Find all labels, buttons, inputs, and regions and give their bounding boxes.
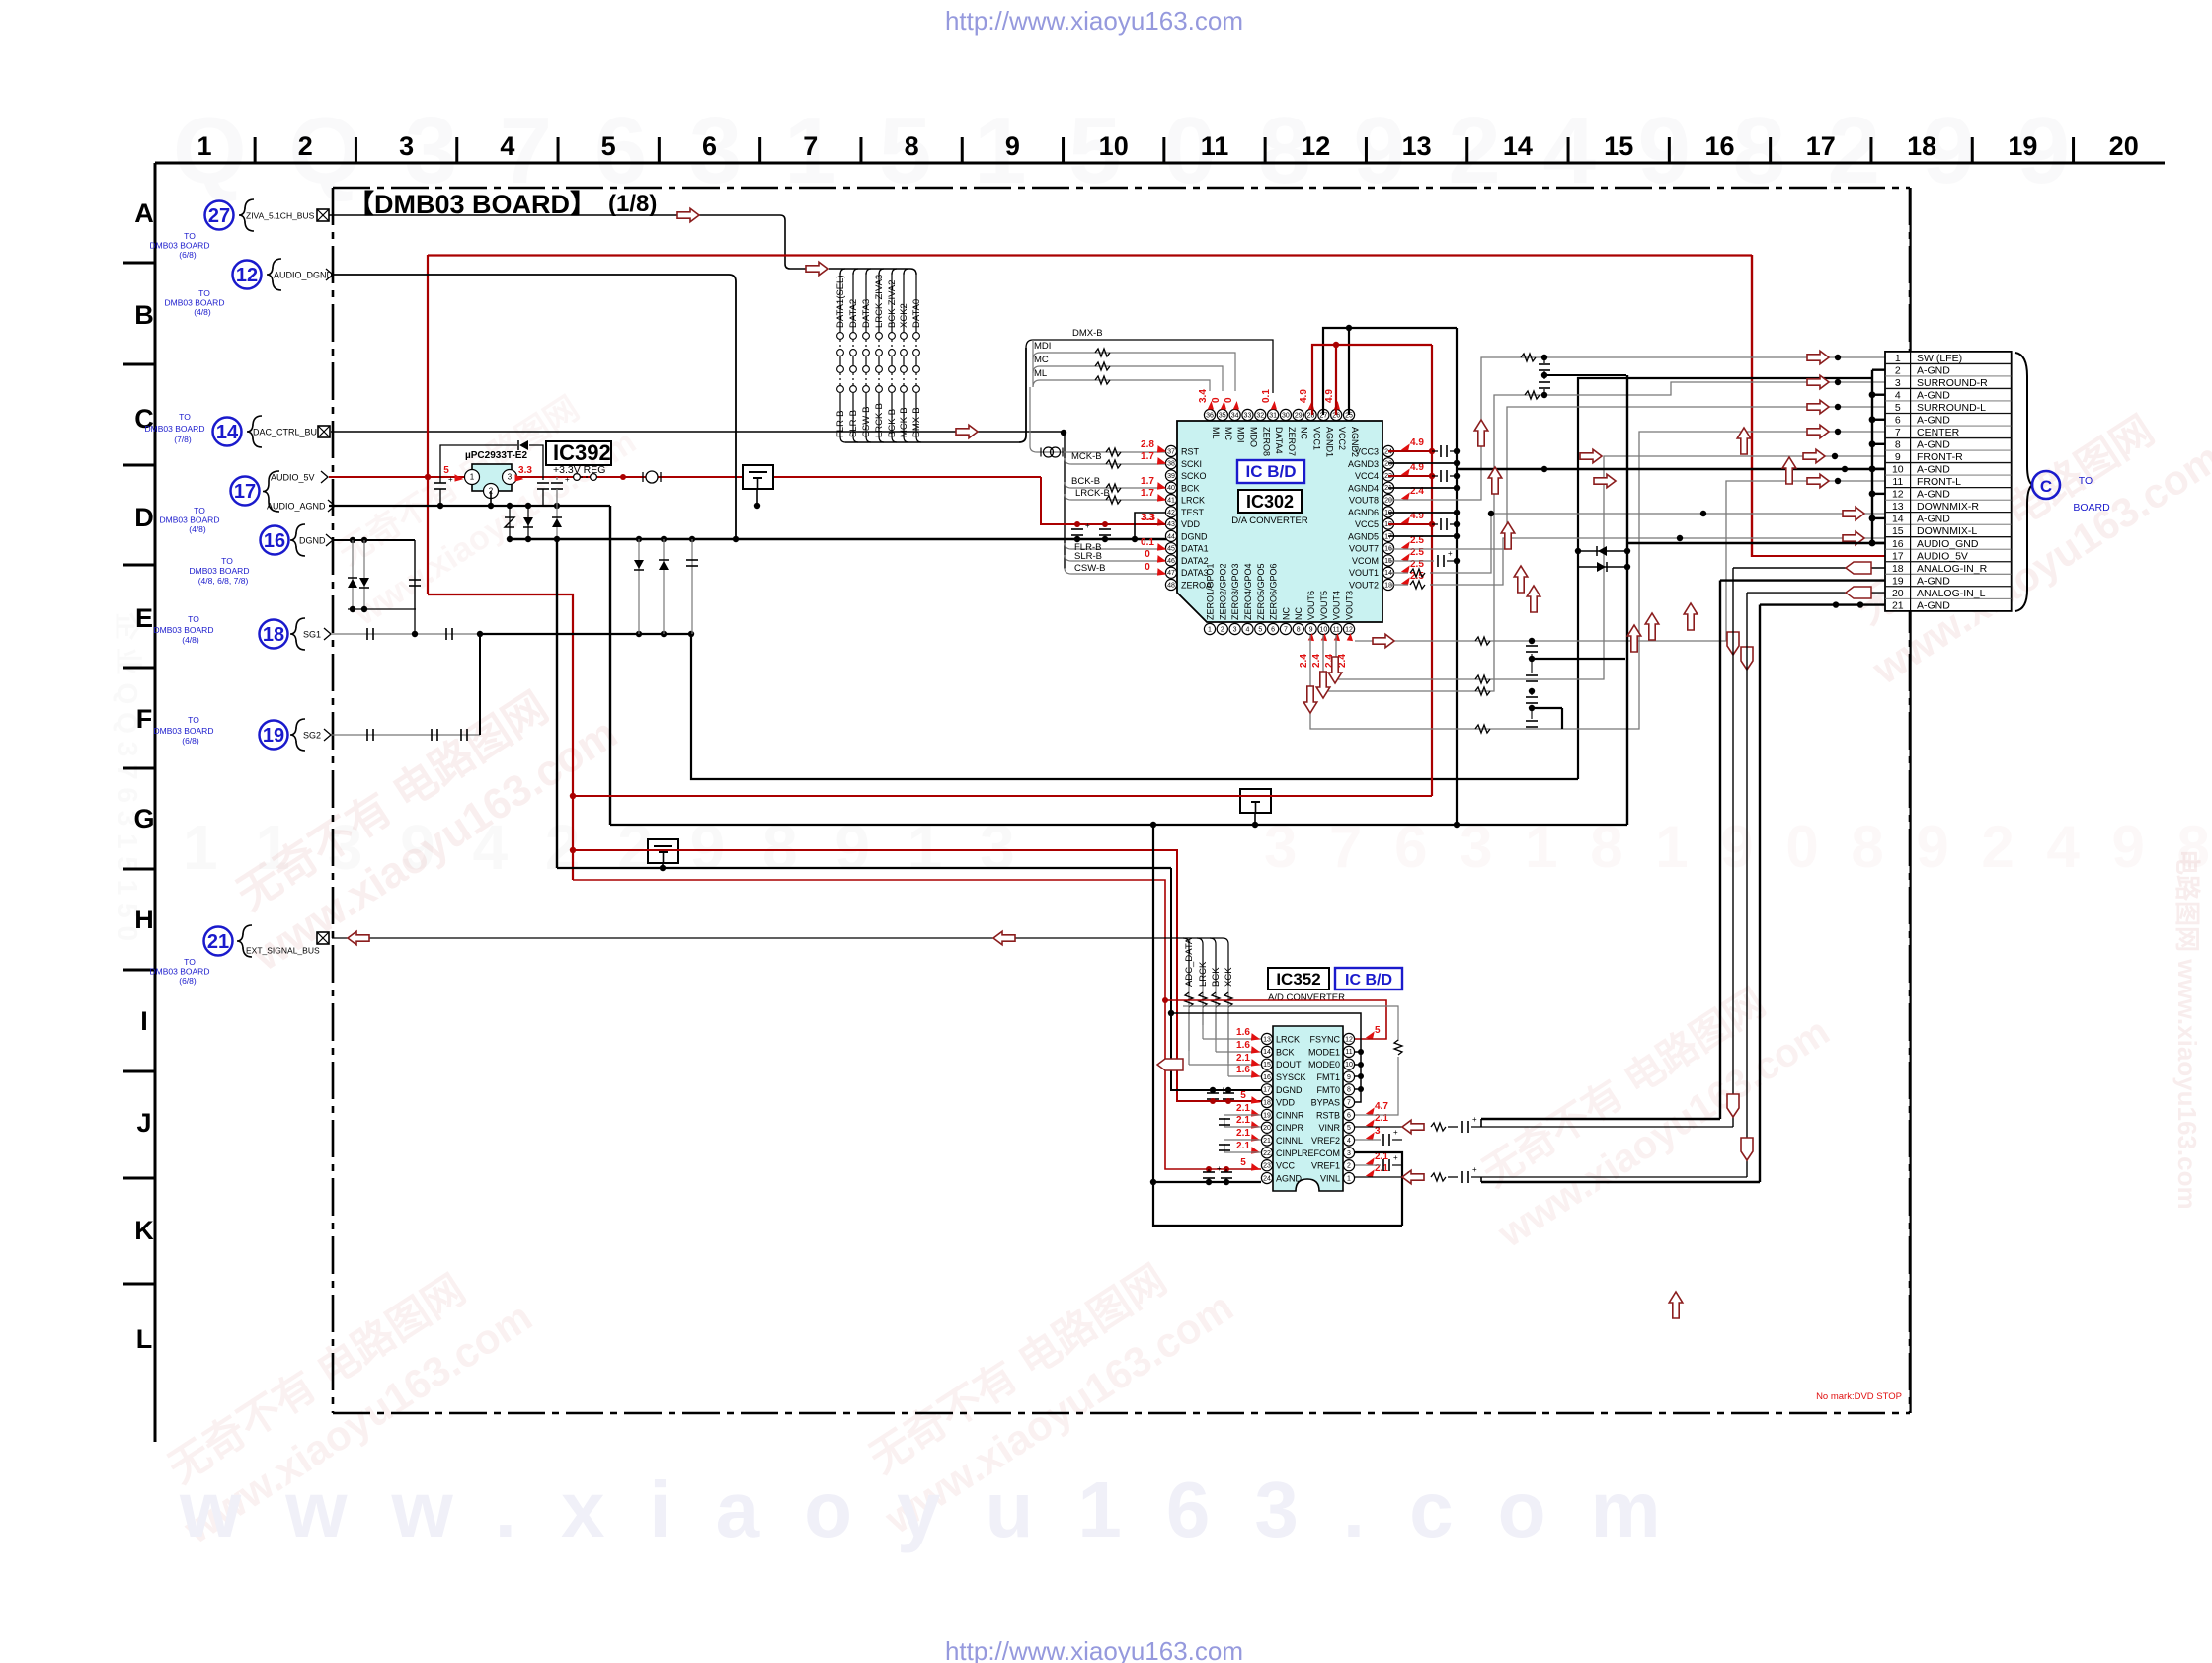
svg-text:D: D bbox=[134, 503, 154, 532]
svg-text:20: 20 bbox=[1263, 1125, 1271, 1132]
svg-text:28: 28 bbox=[1307, 412, 1315, 419]
IC302 D/A converter body bbox=[1177, 421, 1382, 622]
red loop top (VCC1/VCC2) bbox=[1312, 345, 1432, 415]
svg-text:(6/8): (6/8) bbox=[182, 736, 199, 746]
IC302 labels bbox=[1237, 460, 1304, 483]
VCC4 tap bbox=[1388, 475, 1432, 477]
svg-text:MDI: MDI bbox=[1236, 427, 1246, 443]
svg-text:NC: NC bbox=[1281, 607, 1291, 620]
wire VOUT8 to SW(LFE) row1 bbox=[1388, 357, 1885, 500]
svg-text:23: 23 bbox=[1263, 1163, 1271, 1170]
svg-text:12: 12 bbox=[1345, 626, 1353, 633]
svg-text:DMB03 BOARD: DMB03 BOARD bbox=[165, 298, 225, 308]
svg-text:15: 15 bbox=[1263, 1062, 1271, 1069]
bus riser DATA3 / CSW-B bbox=[866, 269, 871, 275]
svg-text:17: 17 bbox=[234, 481, 256, 503]
svg-text:19: 19 bbox=[263, 725, 284, 747]
svg-text:A-GND: A-GND bbox=[1917, 415, 1950, 427]
SG2 riser to SG1 bbox=[479, 634, 481, 735]
svg-text:A: A bbox=[134, 198, 154, 228]
connector stub 17 AUDIO_5V / AUDIO_AGND bbox=[231, 477, 260, 506]
svg-text:4.9: 4.9 bbox=[1299, 389, 1309, 403]
svg-text:FRONT-R: FRONT-R bbox=[1917, 451, 1963, 463]
svg-text:MC: MC bbox=[1034, 355, 1049, 365]
svg-text:2.1: 2.1 bbox=[1236, 1128, 1250, 1139]
svg-text:BCK: BCK bbox=[1181, 483, 1200, 493]
left ruler line bbox=[154, 163, 157, 1442]
riser bus x=1078 (FLR/SLR/CSW/BCK/LRCK) bbox=[1064, 433, 1066, 569]
svg-text:DMB03 BOARD: DMB03 BOARD bbox=[154, 625, 214, 635]
svg-text:BCK-B: BCK-B bbox=[1071, 476, 1100, 487]
svg-text:21: 21 bbox=[1892, 599, 1904, 611]
watermark red diagonal groups bbox=[211, 660, 626, 981]
svg-text:4.9: 4.9 bbox=[1410, 437, 1424, 448]
svg-text:3: 3 bbox=[1347, 1150, 1351, 1157]
svg-text:DMX-B: DMX-B bbox=[1072, 328, 1103, 339]
svg-text:5: 5 bbox=[1240, 1157, 1246, 1168]
svg-text:21: 21 bbox=[207, 931, 229, 953]
DGND rail y=546 bbox=[510, 538, 1171, 540]
svg-text:12: 12 bbox=[236, 265, 258, 286]
svg-text:DMB03 BOARD: DMB03 BOARD bbox=[150, 967, 210, 977]
connector table C bbox=[1885, 352, 2012, 611]
svg-text:BYPAS: BYPAS bbox=[1311, 1098, 1340, 1108]
DGND stub line to sub-circuit bbox=[332, 539, 415, 541]
svg-text:VOUT2: VOUT2 bbox=[1349, 580, 1379, 590]
svg-text:1.6: 1.6 bbox=[1236, 1040, 1250, 1051]
svg-text:E: E bbox=[135, 603, 153, 633]
wire A-GND row19 bbox=[1720, 579, 1885, 581]
connector stub 16 DGND bbox=[261, 526, 289, 555]
svg-text:SLR-B: SLR-B bbox=[1074, 551, 1102, 562]
svg-text:9: 9 bbox=[1347, 1074, 1351, 1081]
svg-text:AGND6: AGND6 bbox=[1348, 508, 1379, 517]
svg-text:IC392: IC392 bbox=[553, 440, 611, 465]
svg-text:11: 11 bbox=[1345, 1049, 1352, 1056]
svg-text:2: 2 bbox=[1221, 626, 1224, 633]
svg-text:www.xiaoyu163.com: www.xiaoyu163.com bbox=[179, 1465, 1705, 1553]
red rail x=1450 (VCC) bbox=[1431, 345, 1433, 796]
svg-text:+: + bbox=[1393, 1128, 1398, 1137]
svg-text:10: 10 bbox=[1099, 131, 1129, 161]
post-reg caps bbox=[542, 477, 544, 480]
svg-text:NC: NC bbox=[1300, 427, 1309, 439]
svg-text:AUDIO_5V: AUDIO_5V bbox=[271, 473, 315, 483]
svg-text:DATA1(SEL): DATA1(SEL) bbox=[835, 276, 846, 329]
svg-text:VINR: VINR bbox=[1318, 1123, 1340, 1133]
svg-text:MDI: MDI bbox=[1034, 341, 1051, 352]
CINNR/CINPR caps bbox=[1224, 1114, 1261, 1116]
svg-text:TO: TO bbox=[184, 957, 196, 967]
svg-text:19: 19 bbox=[1263, 1112, 1271, 1119]
svg-text:3.3: 3.3 bbox=[1142, 513, 1155, 523]
beads on VOUT lines bbox=[1475, 637, 1490, 645]
svg-text:5: 5 bbox=[1347, 1125, 1351, 1132]
svg-text:2: 2 bbox=[1895, 364, 1901, 376]
wire ANALOG-IN_R row18 bbox=[1733, 567, 1885, 569]
svg-text:12: 12 bbox=[1345, 1036, 1353, 1043]
svg-text:DOWNMIX-R: DOWNMIX-R bbox=[1917, 501, 1979, 513]
wire AUDIO_5V (red) bbox=[329, 476, 1041, 478]
red top run y=258 bbox=[428, 254, 1752, 256]
row1 filter caps bbox=[1543, 357, 1545, 363]
svg-text:AUDIO_5V: AUDIO_5V bbox=[1917, 550, 1968, 562]
svg-text:SURROUND-R: SURROUND-R bbox=[1917, 377, 1988, 389]
rail y=879 DGND to IC352 bbox=[557, 867, 1171, 869]
svg-text:5: 5 bbox=[1375, 1025, 1381, 1036]
svg-text:NC: NC bbox=[1294, 607, 1303, 620]
svg-text:IC B/D: IC B/D bbox=[1246, 462, 1297, 481]
wire VOUT6 to CENTER row7 bbox=[1310, 432, 1885, 729]
svg-text:SLR-B: SLR-B bbox=[848, 410, 859, 437]
svg-text:43: 43 bbox=[1167, 521, 1175, 528]
up arrows mid network bbox=[1474, 420, 1488, 446]
svg-text:DMB03 BOARD: DMB03 BOARD bbox=[160, 515, 220, 525]
svg-text:LRCK: LRCK bbox=[1198, 961, 1209, 987]
svg-text:39: 39 bbox=[1167, 473, 1175, 480]
svg-text:MCK-B: MCK-B bbox=[1071, 451, 1102, 462]
svg-text:AUDIO_GND: AUDIO_GND bbox=[1917, 538, 1979, 550]
svg-text:电路图网 www.xiaoyu163.com: 电路图网 www.xiaoyu163.com bbox=[2172, 849, 2202, 1210]
svg-text:2.4: 2.4 bbox=[1311, 654, 1322, 668]
VCC5 tap bbox=[1388, 523, 1432, 525]
left ruler ticks bbox=[123, 262, 155, 265]
svg-text:4: 4 bbox=[1895, 390, 1901, 402]
svg-text:21: 21 bbox=[1263, 1138, 1271, 1145]
red 3.3V drop to pin43 bbox=[1041, 477, 1165, 524]
connector stub 14 DAC_CTRL_BUS bbox=[213, 418, 242, 446]
svg-text:+: + bbox=[1448, 549, 1453, 558]
svg-text:1.7: 1.7 bbox=[1141, 451, 1154, 462]
wire VOUT1 to DOWNMIX-R row13 bbox=[1388, 572, 1408, 574]
svg-text:7: 7 bbox=[803, 131, 818, 161]
svg-text:VCC2: VCC2 bbox=[1337, 427, 1347, 450]
top ruler line bbox=[155, 162, 2165, 165]
svg-text:I: I bbox=[140, 1006, 148, 1036]
svg-text:A-GND: A-GND bbox=[1917, 439, 1950, 451]
AGND3 tap bbox=[1388, 462, 1457, 464]
wire MCK-B jumper line to pin37 bbox=[1030, 446, 1165, 452]
svg-text:DMB03 BOARD: DMB03 BOARD bbox=[150, 241, 210, 251]
svg-text:1: 1 bbox=[470, 472, 475, 481]
svg-text:(7/8): (7/8) bbox=[174, 435, 192, 444]
data bus bottom rail to DAC_CTRL junction bbox=[845, 441, 1019, 443]
svg-text:17: 17 bbox=[1892, 550, 1904, 562]
svg-text:0: 0 bbox=[1145, 562, 1150, 573]
svg-text:13: 13 bbox=[1892, 501, 1904, 513]
svg-text:0: 0 bbox=[1211, 397, 1222, 403]
risers to analog input network bbox=[1719, 581, 1721, 1119]
svg-text:VDD: VDD bbox=[1276, 1098, 1296, 1108]
svg-text:No mark:DVD STOP: No mark:DVD STOP bbox=[1816, 1391, 1902, 1402]
svg-text:17: 17 bbox=[1263, 1087, 1271, 1094]
svg-text:DOWNMIX-L: DOWNMIX-L bbox=[1917, 525, 1977, 537]
svg-text:VOUT6: VOUT6 bbox=[1306, 591, 1316, 620]
IC352 pins left (13-24) bbox=[1261, 1033, 1272, 1044]
svg-text:CSW-B: CSW-B bbox=[861, 407, 872, 438]
svg-text:8: 8 bbox=[1347, 1087, 1351, 1094]
svg-text:18: 18 bbox=[1907, 131, 1936, 161]
svg-text:VCC: VCC bbox=[1276, 1161, 1296, 1171]
svg-text:ML: ML bbox=[1211, 427, 1221, 439]
svg-text:10: 10 bbox=[1319, 626, 1327, 633]
bus riser LRCK bbox=[1197, 938, 1203, 986]
regulator IC392 uPC2933T-E2 bbox=[472, 464, 512, 491]
AGND4 tap bbox=[1388, 487, 1457, 489]
wire ANALOG-IN_L row20 bbox=[1747, 592, 1885, 594]
svg-text:33: 33 bbox=[1244, 412, 1252, 419]
svg-text:DMB03 BOARD: DMB03 BOARD bbox=[190, 566, 250, 576]
table right brace bbox=[2015, 353, 2032, 611]
svg-text:VCOM: VCOM bbox=[1352, 556, 1379, 566]
svg-text:24: 24 bbox=[1263, 1175, 1271, 1182]
svg-text:+: + bbox=[565, 475, 570, 484]
svg-text:7: 7 bbox=[1284, 626, 1288, 633]
svg-text:7: 7 bbox=[1347, 1100, 1351, 1107]
svg-text:AGND4: AGND4 bbox=[1348, 483, 1379, 493]
svg-text:(4/8): (4/8) bbox=[194, 307, 211, 317]
svg-text:J: J bbox=[136, 1108, 151, 1138]
svg-text:CINPL: CINPL bbox=[1276, 1148, 1303, 1158]
svg-text:ML: ML bbox=[1034, 368, 1047, 379]
svg-text:VCC1: VCC1 bbox=[1312, 427, 1322, 450]
svg-text:SG2: SG2 bbox=[303, 731, 321, 741]
svg-text:VREF1: VREF1 bbox=[1311, 1161, 1340, 1171]
svg-text:TO: TO bbox=[194, 506, 205, 515]
svg-text:45: 45 bbox=[1167, 546, 1175, 553]
svg-text:L: L bbox=[136, 1324, 153, 1354]
IC352 labels bbox=[1268, 968, 1329, 990]
ground symbol G2 bbox=[1240, 789, 1271, 813]
svg-text:1.7: 1.7 bbox=[1141, 488, 1154, 499]
svg-text:DAC_CTRL_BUS: DAC_CTRL_BUS bbox=[253, 428, 323, 437]
svg-text:B: B bbox=[134, 300, 154, 330]
svg-text:9: 9 bbox=[1005, 131, 1020, 161]
IC352 A/D converter body bbox=[1273, 1026, 1343, 1191]
svg-text:A-GND: A-GND bbox=[1917, 489, 1950, 501]
black riser x=1186 to IC352 DGND bbox=[1171, 868, 1261, 1090]
svg-text:0: 0 bbox=[1145, 549, 1150, 560]
svg-text:A-GND: A-GND bbox=[1917, 390, 1950, 402]
AGND pin24 line bbox=[1153, 1181, 1261, 1183]
svg-text:0.1: 0.1 bbox=[1261, 389, 1272, 403]
svg-text:TO: TO bbox=[188, 715, 199, 725]
svg-text:14: 14 bbox=[1892, 514, 1904, 525]
bead on 3.3V line bbox=[646, 471, 658, 483]
AUDIO_AGND rail y=512 bbox=[329, 505, 610, 507]
svg-text:6: 6 bbox=[1895, 415, 1901, 427]
bus riser DATA0 / DMX-B bbox=[915, 273, 917, 332]
svg-text:ZERO6/GPO6: ZERO6/GPO6 bbox=[1269, 563, 1279, 620]
bus riser DATA2 / SLR-B bbox=[853, 269, 858, 275]
svg-text:SYSCK: SYSCK bbox=[1276, 1072, 1306, 1082]
frame line through table bbox=[1909, 188, 1911, 352]
svg-text:ANALOG-IN_R: ANALOG-IN_R bbox=[1917, 563, 1988, 575]
svg-text:+: + bbox=[1472, 1165, 1477, 1174]
VCC3 tap bbox=[1388, 450, 1432, 452]
A-GND bus at table bbox=[1871, 370, 1873, 543]
bus riser XCK2 / MCK-B bbox=[904, 269, 908, 275]
svg-text:30: 30 bbox=[1282, 412, 1290, 419]
svg-text:38: 38 bbox=[1167, 461, 1175, 468]
black riser x=564 DGND to lower nets bbox=[556, 539, 558, 868]
svg-text:2.1: 2.1 bbox=[1236, 1103, 1250, 1114]
svg-text:ZERO1/GPO1: ZERO1/GPO1 bbox=[1206, 563, 1216, 620]
svg-text:15: 15 bbox=[1604, 131, 1633, 161]
svg-text:DATA0: DATA0 bbox=[911, 299, 922, 328]
wire VOUT7 to SURROUND-L row5 bbox=[1388, 407, 1885, 549]
svg-text:CSW-B: CSW-B bbox=[1074, 563, 1106, 574]
svg-text:DATA2: DATA2 bbox=[848, 299, 859, 328]
components from DGND rail down to SG1 bbox=[638, 539, 640, 634]
svg-text:20: 20 bbox=[1892, 588, 1904, 599]
VINL thick feed bbox=[1481, 1181, 1760, 1183]
svg-text:VOUT1: VOUT1 bbox=[1349, 568, 1379, 578]
svg-text:ADC_DATA: ADC_DATA bbox=[1184, 937, 1195, 987]
bus riser LRCK-ZIVA3 / LRCK-B bbox=[879, 269, 884, 275]
svg-text:9: 9 bbox=[1309, 626, 1313, 633]
svg-text:41: 41 bbox=[1167, 497, 1175, 504]
VINL network bbox=[1355, 1176, 1402, 1178]
svg-text:(6/8): (6/8) bbox=[179, 250, 197, 260]
svg-text:1: 1 bbox=[1895, 353, 1901, 364]
svg-text:SURROUND-L: SURROUND-L bbox=[1917, 402, 1986, 414]
svg-text:D/A CONVERTER: D/A CONVERTER bbox=[1231, 515, 1308, 526]
svg-text:F: F bbox=[136, 704, 153, 734]
svg-text:G: G bbox=[133, 804, 154, 833]
svg-text:35: 35 bbox=[1219, 412, 1226, 419]
svg-text:FMT0: FMT0 bbox=[1317, 1085, 1341, 1095]
svg-text:MODE0: MODE0 bbox=[1308, 1060, 1340, 1069]
svg-text:CINPR: CINPR bbox=[1276, 1123, 1304, 1133]
svg-text:4.9: 4.9 bbox=[1324, 389, 1335, 403]
wire VOUT3 to FRONT-L row11 bbox=[1355, 481, 1885, 641]
svg-text:ZERO4/GPO4: ZERO4/GPO4 bbox=[1243, 563, 1253, 620]
RSTB gray loop with resistor bbox=[1183, 1006, 1398, 1041]
REFCOM tie to bottom rail bbox=[1355, 1152, 1402, 1226]
svg-text:IC302: IC302 bbox=[1246, 492, 1294, 512]
svg-text:1: 1 bbox=[1208, 626, 1212, 633]
svg-text:0: 0 bbox=[1224, 397, 1234, 403]
svg-text:42: 42 bbox=[1167, 510, 1175, 516]
svg-text:1: 1 bbox=[1347, 1175, 1351, 1182]
svg-text:44: 44 bbox=[1167, 533, 1175, 540]
IC352 pins right (12-1) bbox=[1343, 1033, 1354, 1044]
svg-text:A-GND: A-GND bbox=[1917, 575, 1950, 587]
svg-text:http://www.xiaoyu163.com: http://www.xiaoyu163.com bbox=[945, 6, 1243, 36]
svg-text:BCK: BCK bbox=[1276, 1047, 1295, 1057]
svg-text:18: 18 bbox=[1892, 563, 1904, 575]
FSYNC red loop bbox=[1165, 1000, 1386, 1039]
DGND caps at IC352 bbox=[1210, 1087, 1216, 1093]
decoupling caps at pin43/44 bbox=[1076, 524, 1078, 527]
svg-text:6: 6 bbox=[1347, 1112, 1351, 1119]
svg-text:DATA3: DATA3 bbox=[861, 299, 872, 328]
svg-text:LRCK-ZIVA3: LRCK-ZIVA3 bbox=[874, 275, 885, 328]
svg-text:企 业 Q Q 3 7 6 3 1 5 1 5 0: 企 业 Q Q 3 7 6 3 1 5 1 5 0 bbox=[113, 612, 144, 941]
svg-text:11: 11 bbox=[1201, 131, 1229, 161]
svg-text:VCC5: VCC5 bbox=[1355, 519, 1379, 529]
bus riser ADC_DATA bbox=[1183, 938, 1189, 986]
svg-text:TEST: TEST bbox=[1181, 508, 1205, 517]
svg-text:CINNR: CINNR bbox=[1276, 1110, 1304, 1120]
wire SG2 bbox=[332, 734, 480, 736]
svg-text:FMT1: FMT1 bbox=[1317, 1072, 1341, 1082]
svg-text:48: 48 bbox=[1167, 582, 1175, 589]
pin2 drop to AGND rail bbox=[490, 491, 492, 506]
zener/diodes below AGND rail bbox=[509, 506, 511, 539]
MODE/FMT/BYPAS tie bus bbox=[1171, 1013, 1361, 1102]
svg-text:LRCK: LRCK bbox=[1276, 1035, 1300, 1045]
svg-text:REFCOM: REFCOM bbox=[1302, 1148, 1340, 1158]
bus riser XCK bbox=[1223, 938, 1228, 986]
clamp diodes near row16 bbox=[1578, 550, 1627, 552]
wire VOUT2 to DOWNMIX-L row15 bbox=[1388, 584, 1408, 586]
IC302 pins right (24-13) bbox=[1382, 445, 1393, 456]
svg-text:46: 46 bbox=[1167, 558, 1175, 565]
red feed y=806 to x=1450 bbox=[573, 795, 1432, 797]
svg-text:11: 11 bbox=[1333, 626, 1340, 633]
svg-text:VOUT8: VOUT8 bbox=[1349, 496, 1379, 506]
svg-text:4.7: 4.7 bbox=[1375, 1101, 1388, 1112]
svg-text:1.6: 1.6 bbox=[1236, 1065, 1250, 1075]
svg-text:TO: TO bbox=[179, 412, 191, 422]
AUDIO_DGND drop x=745 bbox=[331, 275, 736, 539]
chassis ground symbol D-row bbox=[743, 465, 773, 489]
wire SG1 bbox=[332, 633, 480, 635]
svg-text:8: 8 bbox=[905, 131, 919, 161]
IC302 pins bottom (1-12) bbox=[1204, 623, 1215, 634]
svg-text:A-GND: A-GND bbox=[1917, 464, 1950, 476]
wire DAC_CTRL_BUS bbox=[331, 431, 1065, 433]
IC302 pins left (37-48) bbox=[1165, 445, 1176, 456]
svg-text:A-GND: A-GND bbox=[1917, 599, 1950, 611]
connector C circle bbox=[2032, 471, 2060, 499]
svg-text:VOUT7: VOUT7 bbox=[1349, 544, 1379, 554]
svg-text:16: 16 bbox=[264, 530, 285, 552]
capacitor C-in IC392 bbox=[439, 477, 441, 483]
wire VOUT4 to FRONT-R row9 bbox=[1336, 456, 1885, 679]
A-GND long rail y=835 bbox=[610, 824, 1627, 826]
svg-text:TO: TO bbox=[188, 614, 199, 624]
red feed y=861 to IC352 VDD bbox=[573, 850, 1261, 1101]
svg-text:FRONT-L: FRONT-L bbox=[1917, 476, 1961, 488]
svg-text:16: 16 bbox=[1892, 538, 1904, 550]
svg-text:1.6: 1.6 bbox=[1236, 1027, 1250, 1038]
svg-text:40: 40 bbox=[1167, 485, 1175, 492]
svg-text:FSYNC: FSYNC bbox=[1309, 1035, 1340, 1045]
svg-text:BCK-ZIVA2: BCK-ZIVA2 bbox=[887, 280, 898, 328]
svg-text:FLR-B: FLR-B bbox=[835, 411, 846, 437]
svg-text:12: 12 bbox=[1892, 489, 1904, 501]
svg-text:+: + bbox=[448, 475, 453, 484]
svg-text:13: 13 bbox=[1263, 1036, 1271, 1043]
svg-text:23: 23 bbox=[1384, 461, 1392, 468]
svg-text:16: 16 bbox=[1704, 131, 1734, 161]
svg-text:29: 29 bbox=[1295, 412, 1303, 419]
svg-text:A-GND: A-GND bbox=[1917, 514, 1950, 525]
svg-text:DATA4: DATA4 bbox=[1274, 427, 1284, 454]
svg-text:CENTER: CENTER bbox=[1917, 427, 1960, 438]
svg-text:A-GND: A-GND bbox=[1917, 364, 1950, 376]
bus riser BCK bbox=[1210, 938, 1216, 986]
red feed y=891 to IC352 VCC bbox=[573, 880, 1261, 1169]
svg-text:AGND: AGND bbox=[1276, 1174, 1303, 1184]
svg-text:XCK2: XCK2 bbox=[899, 303, 909, 328]
svg-text:VINL: VINL bbox=[1320, 1174, 1340, 1184]
svg-text:5: 5 bbox=[601, 131, 616, 161]
svg-text:(6/8): (6/8) bbox=[179, 976, 197, 986]
